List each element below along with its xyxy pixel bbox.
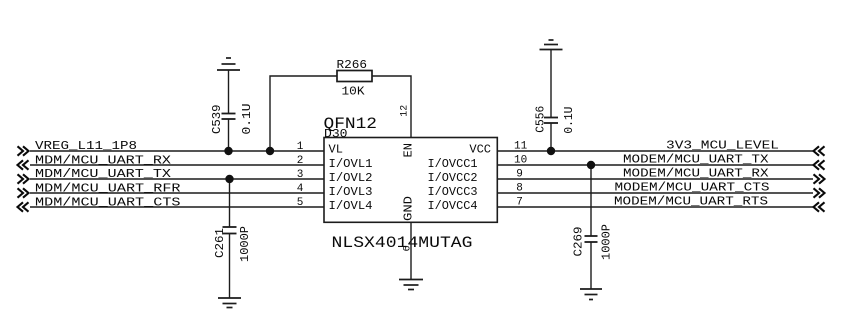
port arrow input << 3V3_MCU_LEVEL bbox=[814, 146, 825, 155]
svg-text:I/OVCC1: I/OVCC1 bbox=[428, 157, 478, 171]
capacitor C556 bbox=[544, 50, 558, 152]
capacitor C539 bbox=[222, 70, 236, 151]
port arrow input << MODEM/MCU_UART_RTS bbox=[814, 202, 825, 211]
port arrow output >> MODEM/MCU_UART_CTS bbox=[814, 188, 825, 197]
junction dot C269 / net bbox=[587, 161, 595, 169]
svg-text:VCC: VCC bbox=[469, 143, 491, 157]
svg-text:4: 4 bbox=[297, 183, 304, 195]
wire net MODEM/MCU_UART_CTS bbox=[497, 192, 813, 194]
svg-text:I/OVL2: I/OVL2 bbox=[329, 171, 373, 185]
svg-text:7: 7 bbox=[516, 196, 523, 208]
wire net 3V3_MCU_LEVEL right segment bbox=[497, 150, 813, 152]
svg-text:C261: C261 bbox=[213, 228, 227, 258]
wire net MDM/MCU_UART_RFR bbox=[30, 192, 324, 194]
svg-text:0.1U: 0.1U bbox=[240, 104, 254, 135]
svg-text:2: 2 bbox=[297, 155, 304, 167]
svg-text:MODEM/MCU_UART_RTS: MODEM/MCU_UART_RTS bbox=[614, 195, 768, 209]
ground (below C269) bbox=[580, 289, 602, 300]
wire net MODEM/MCU_UART_TX bbox=[497, 164, 813, 166]
svg-text:0.1U: 0.1U bbox=[562, 107, 576, 134]
wire net MDM/MCU_UART_CTS bbox=[30, 206, 324, 208]
svg-text:12: 12 bbox=[400, 105, 411, 117]
svg-text:VL: VL bbox=[329, 143, 343, 157]
svg-text:5: 5 bbox=[297, 197, 304, 209]
junction dot C556 / net bbox=[547, 147, 555, 155]
wire GND pin stub bbox=[410, 222, 412, 279]
svg-text:10: 10 bbox=[514, 154, 527, 166]
svg-text:9: 9 bbox=[516, 168, 523, 180]
port arrow output >> MDM/MCU_UART_RFR bbox=[18, 188, 29, 197]
svg-text:I/OVCC4: I/OVCC4 bbox=[428, 199, 478, 213]
svg-text:1000P: 1000P bbox=[600, 224, 614, 260]
svg-text:I/OVL3: I/OVL3 bbox=[329, 185, 373, 199]
wire R266 right to EN pin bbox=[372, 76, 411, 138]
junction dot C539 / net bbox=[224, 147, 232, 155]
svg-text:I/OVCC2: I/OVCC2 bbox=[428, 171, 478, 185]
svg-text:11: 11 bbox=[514, 140, 528, 152]
capacitor C269 bbox=[585, 165, 598, 289]
svg-text:C556: C556 bbox=[534, 106, 548, 133]
port arrow input << MDM/MCU_UART_CTS bbox=[18, 202, 29, 211]
svg-text:R266: R266 bbox=[337, 58, 368, 72]
svg-text:D30: D30 bbox=[324, 127, 348, 141]
svg-text:1000P: 1000P bbox=[238, 226, 252, 262]
svg-text:I/OVL4: I/OVL4 bbox=[329, 199, 373, 213]
junction dot R266 branch / net bbox=[266, 147, 274, 155]
svg-text:MDM/MCU_UART_TX: MDM/MCU_UART_TX bbox=[35, 167, 171, 181]
svg-text:VREG_L11_1P8: VREG_L11_1P8 bbox=[35, 139, 137, 153]
port arrow input << MODEM/MCU_UART_TX bbox=[814, 160, 825, 169]
svg-text:MODEM/MCU_UART_TX: MODEM/MCU_UART_TX bbox=[623, 153, 769, 167]
svg-text:MDM/MCU_UART_CTS: MDM/MCU_UART_CTS bbox=[35, 196, 181, 210]
ground (above C539) bbox=[217, 58, 240, 70]
wire net MDM/MCU_UART_RX bbox=[30, 164, 324, 166]
IC D30 body bbox=[324, 138, 497, 223]
svg-text:3V3_MCU_LEVEL: 3V3_MCU_LEVEL bbox=[666, 139, 779, 153]
junction dot C261 / net bbox=[225, 175, 233, 183]
svg-text:I/OVCC3: I/OVCC3 bbox=[428, 185, 478, 199]
port arrow output >> MODEM/MCU_UART_RX bbox=[814, 174, 825, 183]
svg-text:1: 1 bbox=[297, 141, 304, 153]
port arrow output >> VREG_L11_1P8 bbox=[18, 146, 29, 155]
ground (above C556) bbox=[540, 40, 563, 50]
capacitor C261 bbox=[223, 179, 237, 298]
port arrow output >> MDM/MCU_UART_TX bbox=[18, 174, 29, 183]
port arrow input << MDM/MCU_UART_RX bbox=[18, 160, 29, 169]
svg-text:EN: EN bbox=[402, 143, 416, 157]
ground (below C261) bbox=[218, 298, 241, 308]
ground (below IC GND pin) bbox=[399, 280, 423, 290]
svg-text:MODEM/MCU_UART_CTS: MODEM/MCU_UART_CTS bbox=[615, 181, 770, 195]
wire net MODEM/MCU_UART_RTS bbox=[497, 206, 813, 208]
svg-text:MDM/MCU_UART_RX: MDM/MCU_UART_RX bbox=[35, 154, 171, 168]
resistor R266 body bbox=[337, 71, 372, 82]
wire node A up to R266 left bbox=[270, 76, 337, 151]
svg-text:C269: C269 bbox=[572, 227, 586, 257]
wire net VREG_L11_1P8 left segment bbox=[30, 150, 324, 152]
svg-text:I/OVL1: I/OVL1 bbox=[329, 157, 373, 171]
wire net MDM/MCU_UART_TX bbox=[30, 178, 324, 180]
svg-text:10K: 10K bbox=[342, 84, 366, 98]
svg-text:GND: GND bbox=[402, 196, 416, 221]
svg-text:6: 6 bbox=[403, 245, 414, 251]
svg-text:C539: C539 bbox=[210, 105, 224, 135]
svg-text:MDM/MCU_UART_RFR: MDM/MCU_UART_RFR bbox=[35, 182, 181, 196]
svg-text:3: 3 bbox=[297, 169, 304, 181]
svg-text:MODEM/MCU_UART_RX: MODEM/MCU_UART_RX bbox=[623, 167, 769, 181]
svg-text:8: 8 bbox=[516, 182, 523, 194]
wire net MODEM/MCU_UART_RX bbox=[497, 178, 813, 180]
